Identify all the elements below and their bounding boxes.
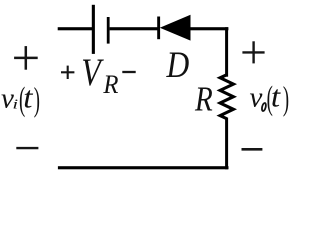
diode D cathode bar bbox=[157, 17, 160, 40]
svg-text:i: i bbox=[12, 96, 18, 111]
wire right vertical lower bbox=[225, 118, 228, 170]
battery V_R positive plate (long) bbox=[92, 5, 95, 54]
wire top-left segment bbox=[58, 27, 93, 30]
svg-text:t: t bbox=[23, 80, 33, 115]
wire diode to top-right corner bbox=[190, 27, 228, 30]
minus sign output port bbox=[242, 148, 263, 151]
minus sign input port bbox=[16, 147, 38, 149]
label o subscript of v_o(t) bbox=[261, 103, 266, 112]
minus sign of V_R label bbox=[122, 71, 135, 73]
plus sign output port bbox=[242, 41, 264, 63]
svg-text:v: v bbox=[250, 82, 263, 114]
svg-text:): ) bbox=[283, 80, 289, 117]
svg-text:V: V bbox=[81, 50, 104, 94]
wire battery to diode bbox=[110, 27, 159, 30]
battery V_R negative plate (short) bbox=[107, 17, 110, 44]
wire right vertical upper bbox=[225, 27, 228, 76]
svg-text:R: R bbox=[102, 70, 119, 99]
plus sign of V_R label bbox=[61, 66, 74, 79]
svg-text:D: D bbox=[166, 45, 190, 86]
svg-text:t: t bbox=[271, 79, 281, 114]
svg-text:R: R bbox=[194, 79, 213, 118]
diode D triangle bbox=[160, 15, 191, 41]
wire bottom rail bbox=[58, 166, 229, 169]
svg-text:): ) bbox=[34, 81, 40, 118]
plus sign input port bbox=[14, 46, 38, 70]
resistor R zigzag bbox=[220, 75, 233, 119]
